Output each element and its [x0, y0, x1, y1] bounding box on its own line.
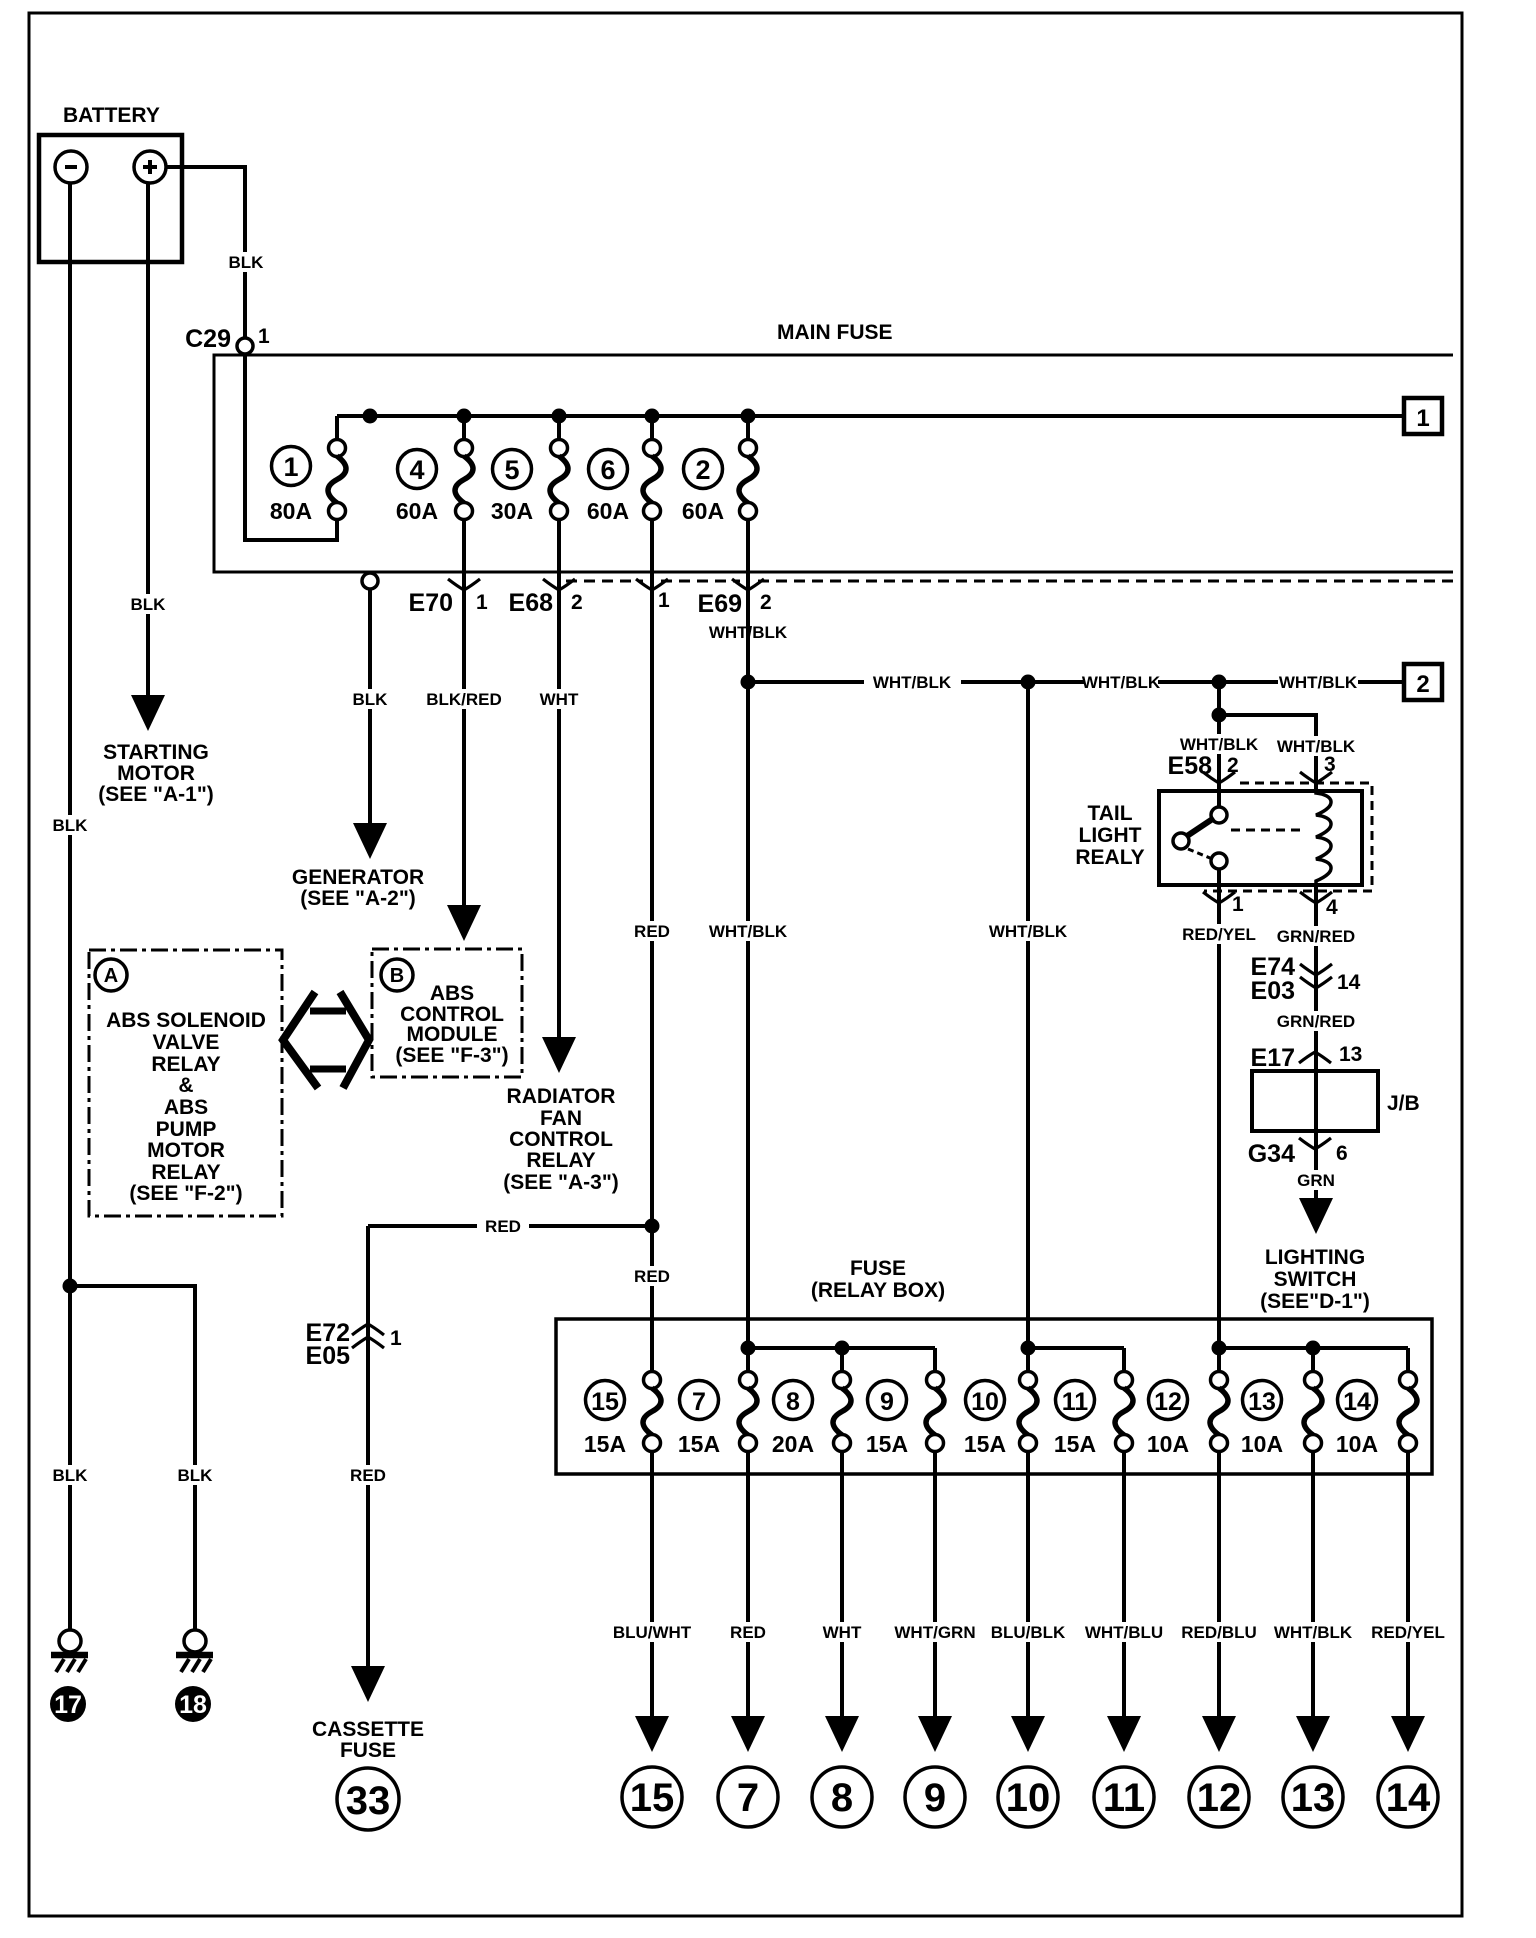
svg-text:MOTOR: MOTOR: [117, 762, 195, 785]
relay switch blade: [1187, 818, 1214, 836]
svg-text:ABS: ABS: [430, 982, 474, 1005]
fuse 13 10A: [1243, 1381, 1282, 1420]
svg-text:10: 10: [971, 1388, 999, 1416]
svg-text:15A: 15A: [678, 1431, 720, 1457]
svg-text:14: 14: [1343, 1388, 1371, 1416]
wire: [840, 1348, 844, 1372]
svg-text:2: 2: [695, 455, 710, 485]
svg-text:WHT/BLK: WHT/BLK: [989, 922, 1068, 941]
fuse 7 15A: [680, 1381, 719, 1420]
node bus-fuse4: [457, 409, 472, 424]
fuse 11 15A: [1056, 1381, 1095, 1420]
node relay coil branch: [1212, 708, 1227, 723]
svg-text:STARTING: STARTING: [103, 741, 209, 764]
svg-text:(SEE "F-2"): (SEE "F-2"): [129, 1182, 242, 1205]
svg-text:1: 1: [390, 1327, 402, 1350]
arrow to generator: [353, 823, 387, 859]
circuit 15 circle: [622, 1767, 682, 1827]
svg-text:60A: 60A: [682, 498, 724, 524]
connector pin 1: [1203, 892, 1235, 903]
svg-text:3: 3: [1324, 753, 1336, 776]
junction block J/B: [1252, 1071, 1378, 1131]
node bus-fuse6: [645, 409, 660, 424]
ground 17 number: [50, 1686, 86, 1722]
svg-text:ABS: ABS: [164, 1096, 208, 1119]
svg-text:15A: 15A: [1054, 1431, 1096, 1457]
node bus-fuse7: [741, 1341, 756, 1356]
connector pin 1 (fuse 6): [636, 579, 668, 590]
svg-text:(SEE "F-3"): (SEE "F-3"): [395, 1044, 508, 1067]
svg-text:15: 15: [591, 1388, 619, 1416]
svg-text:REALY: REALY: [1075, 846, 1144, 869]
relay coil: [1316, 791, 1331, 885]
node bus-fuse2: [741, 409, 756, 424]
svg-text:4: 4: [409, 455, 424, 485]
label BLK (ground 18 wire): [175, 1465, 215, 1485]
svg-text:LIGHTING: LIGHTING: [1265, 1246, 1365, 1269]
fuse box bus C (feeds fuses 12,13,14): [1219, 1346, 1408, 1350]
svg-text:TAIL: TAIL: [1087, 802, 1132, 825]
svg-text:13: 13: [1248, 1388, 1276, 1416]
battery negative terminal: [55, 151, 87, 183]
svg-text:80A: 80A: [270, 498, 312, 524]
svg-text:33: 33: [346, 1779, 391, 1823]
label GRN/RED: [1276, 1011, 1356, 1031]
wire fuse 12 output (RED/BLU): [1217, 1452, 1221, 1716]
svg-text:9: 9: [924, 1776, 946, 1820]
circuit 10 circle: [998, 1767, 1058, 1827]
node to tail light relay: [1212, 675, 1227, 690]
svg-text:(SEE"D-1"): (SEE"D-1"): [1260, 1290, 1370, 1313]
circuit 11 circle: [1094, 1767, 1154, 1827]
svg-text:2: 2: [1227, 754, 1239, 777]
wire generator feed: [368, 589, 372, 823]
wire fuse 13 output (WHT/BLK): [1311, 1452, 1315, 1716]
fuse 14 10A: [1338, 1381, 1377, 1420]
label RED (cassette wire): [346, 1465, 390, 1485]
svg-text:1: 1: [658, 589, 670, 612]
fuse 15 15A: [586, 1381, 625, 1420]
relay switch contacts: [1211, 807, 1227, 823]
off-page connector box 1: [1404, 398, 1442, 434]
node bus-fuse8: [835, 1341, 850, 1356]
svg-text:1: 1: [258, 325, 270, 348]
svg-text:10A: 10A: [1147, 1431, 1189, 1457]
relay mechanical link (dashed): [1231, 829, 1300, 832]
svg-text:E03: E03: [1251, 977, 1295, 1005]
fuse 12 10A: [1149, 1381, 1188, 1420]
label WHT/BLK (pin3): [1277, 736, 1355, 756]
wire battery negative to ground 17: [68, 183, 72, 1630]
wire: [557, 416, 561, 440]
bidirectional arrow between A and B: [283, 992, 369, 1088]
svg-text:GRN: GRN: [1297, 1171, 1335, 1190]
node bus-generator: [363, 409, 378, 424]
fuse 10 15A: [966, 1381, 1005, 1420]
label GRN: [1294, 1170, 1338, 1190]
fuse/relay box outline: [556, 1319, 1432, 1474]
svg-text:WHT/BLK: WHT/BLK: [1274, 1623, 1353, 1642]
node to fuse 10 wire: [1021, 675, 1036, 690]
node bus-fuse12: [1212, 1341, 1227, 1356]
wire: [1122, 1348, 1126, 1372]
svg-text:(SEE "A-3"): (SEE "A-3"): [503, 1171, 619, 1194]
battery B1: [39, 135, 182, 262]
svg-text:2: 2: [760, 591, 772, 614]
wire fuse6 (RED) down to fuse 15: [650, 519, 654, 1372]
svg-text:15A: 15A: [964, 1431, 1006, 1457]
arrow to ABS control module: [447, 905, 481, 941]
svg-text:CASSETTE: CASSETTE: [312, 1718, 424, 1741]
svg-text:13: 13: [1291, 1776, 1336, 1820]
svg-text:B: B: [390, 965, 404, 987]
wire fuse5 to radiator fan control relay: [557, 519, 561, 1037]
svg-text:SWITCH: SWITCH: [1274, 1268, 1357, 1291]
fuse 9 15A: [868, 1381, 907, 1420]
svg-text:60A: 60A: [587, 498, 629, 524]
circuit 8 circle: [812, 1767, 872, 1827]
tail light relay box E58: [1159, 791, 1362, 885]
svg-text:FUSE: FUSE: [850, 1257, 906, 1280]
svg-text:14: 14: [1386, 1776, 1431, 1820]
svg-text:17: 17: [54, 1691, 82, 1719]
wire battery positive to C29: [166, 167, 245, 354]
ground symbol 17: [51, 1630, 88, 1672]
main fuse bus wire: [337, 414, 1404, 418]
node bus-fuse13: [1306, 1341, 1321, 1356]
svg-text:60A: 60A: [396, 498, 438, 524]
connector dashed line under main fuse box: [566, 580, 643, 583]
wire: [1406, 1348, 1410, 1372]
svg-text:RELAY: RELAY: [151, 1161, 220, 1184]
svg-text:(RELAY BOX): (RELAY BOX): [811, 1279, 945, 1302]
svg-text:RED: RED: [634, 1267, 670, 1286]
ABS control module box B: [372, 949, 522, 1077]
svg-text:5: 5: [504, 455, 519, 485]
svg-text:RED: RED: [730, 1623, 766, 1642]
wire fuse2 (WHT/BLK) down to fuse 7: [746, 519, 750, 1372]
wire fuse4 to ABS control module: [462, 519, 466, 905]
svg-text:E17: E17: [1251, 1044, 1295, 1072]
svg-text:BLK: BLK: [229, 253, 265, 272]
svg-text:15A: 15A: [866, 1431, 908, 1457]
svg-text:RELAY: RELAY: [526, 1149, 595, 1172]
fuse box bus B (feeds fuses 10,11): [1028, 1346, 1124, 1350]
svg-text:11: 11: [1103, 1776, 1145, 1820]
fuse 5 30A: [493, 450, 532, 489]
label WHT/BLK (fuse7 wire): [709, 921, 787, 941]
svg-text:C29: C29: [185, 325, 231, 353]
svg-text:J/B: J/B: [1387, 1092, 1420, 1115]
svg-text:8: 8: [831, 1776, 853, 1820]
arrow to radiator fan control relay: [542, 1037, 576, 1073]
svg-text:BLK: BLK: [53, 816, 89, 835]
svg-text:&: &: [178, 1074, 193, 1097]
circuit 7 circle: [718, 1767, 778, 1827]
node RED branch: [645, 1219, 660, 1234]
svg-text:1: 1: [1416, 405, 1429, 432]
svg-text:LIGHT: LIGHT: [1079, 824, 1142, 847]
wire fuse 14 output (RED/YEL): [1406, 1452, 1410, 1716]
wire: [335, 416, 339, 440]
svg-text:(SEE "A-1"): (SEE "A-1"): [98, 783, 214, 806]
svg-text:ABS SOLENOID: ABS SOLENOID: [106, 1009, 266, 1032]
svg-text:2: 2: [571, 591, 583, 614]
arrow to starting motor: [131, 695, 165, 731]
svg-text:12: 12: [1197, 1776, 1242, 1820]
fuse 2 60A: [684, 450, 723, 489]
wire: [933, 1348, 937, 1372]
cassette fuse circle 33: [337, 1768, 399, 1830]
svg-text:BLU/BLK: BLU/BLK: [991, 1623, 1066, 1642]
svg-text:WHT/BLK: WHT/BLK: [1279, 673, 1358, 692]
fuse box bus A (feeds fuses 7,8,9): [748, 1346, 935, 1350]
ground 18 number: [175, 1686, 211, 1722]
circuit 14 circle: [1378, 1767, 1438, 1827]
wire relay pin 1 (RED/YEL) down to fuse 12: [1217, 869, 1221, 1372]
wire down to relay pin 2: [1217, 682, 1221, 807]
svg-text:RED: RED: [634, 922, 670, 941]
svg-text:6: 6: [600, 455, 615, 485]
svg-text:GRN/RED: GRN/RED: [1277, 1012, 1355, 1031]
label GRN/RED: [1276, 926, 1356, 946]
wire fuse 10 output (BLU/BLK): [1026, 1452, 1030, 1716]
svg-text:BATTERY: BATTERY: [63, 104, 160, 127]
svg-text:PUMP: PUMP: [156, 1118, 217, 1141]
label WHT: [536, 689, 582, 709]
svg-text:WHT/GRN: WHT/GRN: [894, 1623, 975, 1642]
svg-text:MODULE: MODULE: [407, 1023, 498, 1046]
ground symbol 18: [176, 1630, 213, 1672]
node ground branch: [63, 1279, 78, 1294]
svg-text:G34: G34: [1248, 1140, 1295, 1168]
svg-text:E70: E70: [409, 589, 453, 617]
label BLK (battery negative wire): [50, 815, 90, 835]
arrow to cassette fuse: [351, 1666, 385, 1702]
node WHT/BLK branch: [741, 675, 756, 690]
svg-text:7: 7: [737, 1776, 759, 1820]
RED branch wire to cassette fuse column: [368, 1224, 477, 1228]
fuse 8 20A: [774, 1381, 813, 1420]
connector pin 4: [1314, 885, 1318, 1198]
svg-text:15: 15: [630, 1776, 675, 1820]
svg-text:2: 2: [1416, 671, 1429, 698]
tail light relay dashed outline: [1204, 783, 1372, 891]
svg-text:A: A: [104, 965, 118, 987]
wire battery positive down to starting motor: [146, 183, 150, 695]
svg-text:RED: RED: [350, 1466, 386, 1485]
label WHT/BLK (pin2): [1179, 734, 1259, 754]
label WHT/BLK (E69 output): [709, 622, 787, 642]
svg-text:9: 9: [880, 1388, 894, 1416]
svg-text:GRN/RED: GRN/RED: [1277, 927, 1355, 946]
wire C29 to fuse 1: [245, 354, 337, 540]
wire: [746, 416, 750, 440]
wire down to cassette fuse: [366, 1226, 370, 1666]
svg-text:BLK: BLK: [53, 1466, 89, 1485]
wire WHT/BLK down to fuse 10: [1026, 682, 1030, 1372]
battery positive terminal: [134, 151, 166, 183]
svg-text:VALVE: VALVE: [153, 1031, 220, 1054]
svg-text:BLK: BLK: [353, 690, 389, 709]
connector E58 pin 3: [1300, 772, 1332, 783]
svg-text:BLK: BLK: [178, 1466, 214, 1485]
wire branch to relay pin 3: [1219, 715, 1316, 791]
WHT/BLK horizontal wire: [748, 680, 864, 684]
label RED: [630, 921, 674, 941]
wire fuse 11 output (WHT/BLU): [1122, 1452, 1126, 1716]
svg-text:E05: E05: [306, 1342, 351, 1370]
label BLK (positive feed): [226, 252, 266, 272]
svg-text:CONTROL: CONTROL: [509, 1128, 613, 1151]
svg-text:(SEE "A-2"): (SEE "A-2"): [300, 887, 416, 910]
svg-text:4: 4: [1326, 896, 1338, 919]
svg-text:6: 6: [1336, 1142, 1348, 1165]
main fuse box outline: [214, 355, 1453, 572]
svg-text:8: 8: [786, 1388, 800, 1416]
node bus-fuse10: [1021, 1341, 1036, 1356]
svg-text:WHT/BLK: WHT/BLK: [873, 673, 952, 692]
svg-text:1: 1: [476, 591, 488, 614]
svg-text:13: 13: [1339, 1043, 1362, 1066]
svg-text:FUSE: FUSE: [340, 1739, 396, 1762]
fuse 6 60A: [589, 450, 628, 489]
svg-text:RED/YEL: RED/YEL: [1182, 925, 1256, 944]
wire fuse 15 output (BLU/WHT): [650, 1452, 654, 1716]
svg-text:30A: 30A: [491, 498, 533, 524]
off-page connector box 2: [1404, 664, 1442, 700]
wire to ground 18: [70, 1286, 195, 1630]
circuit 9 circle: [905, 1767, 965, 1827]
wire fuse 8 output (WHT): [840, 1452, 844, 1716]
svg-text:FAN: FAN: [540, 1107, 582, 1130]
label BLK/RED: [424, 689, 504, 709]
svg-text:MOTOR: MOTOR: [147, 1139, 225, 1162]
svg-text:11: 11: [1062, 1388, 1089, 1416]
svg-text:E69: E69: [698, 590, 742, 618]
arrow to lighting switch: [1299, 1198, 1333, 1234]
svg-text:MAIN FUSE: MAIN FUSE: [777, 321, 893, 344]
svg-text:15A: 15A: [584, 1431, 626, 1457]
label WHT/BLK (fuse10 wire): [989, 921, 1067, 941]
label BLK (starting motor wire): [128, 594, 168, 614]
svg-text:BLK: BLK: [131, 595, 167, 614]
svg-text:14: 14: [1337, 971, 1361, 994]
svg-text:RADIATOR: RADIATOR: [507, 1085, 616, 1108]
svg-text:RED: RED: [485, 1217, 521, 1236]
svg-text:RED/BLU: RED/BLU: [1181, 1623, 1257, 1642]
wire: [650, 416, 654, 440]
svg-text:12: 12: [1154, 1388, 1182, 1416]
node bus-fuse5: [552, 409, 567, 424]
fuse 1 80A: [272, 447, 311, 486]
svg-text:RED/YEL: RED/YEL: [1371, 1623, 1445, 1642]
svg-text:WHT: WHT: [823, 1623, 862, 1642]
svg-text:E68: E68: [509, 589, 554, 617]
svg-text:18: 18: [179, 1691, 207, 1719]
wire: [1311, 1348, 1315, 1372]
svg-text:1: 1: [283, 452, 298, 482]
svg-text:RELAY: RELAY: [151, 1053, 220, 1076]
label RED (lower): [630, 1266, 674, 1286]
svg-text:WHT: WHT: [540, 690, 579, 709]
circuit 13 circle: [1283, 1767, 1343, 1827]
wire fuse 9 output (WHT/GRN): [933, 1452, 937, 1716]
svg-text:10A: 10A: [1336, 1431, 1378, 1457]
label BLK (generator wire): [350, 689, 390, 709]
circuit 12 circle: [1189, 1767, 1249, 1827]
svg-text:BLU/WHT: BLU/WHT: [613, 1623, 692, 1642]
svg-text:GENERATOR: GENERATOR: [292, 866, 424, 889]
svg-text:WHT/BLK: WHT/BLK: [1082, 673, 1161, 692]
label RED/YEL: [1180, 924, 1258, 944]
connector pin (open circle) generator wire: [362, 573, 378, 589]
svg-text:10: 10: [1006, 1776, 1051, 1820]
wire: [462, 416, 466, 440]
svg-text:BLK/RED: BLK/RED: [426, 690, 502, 709]
ABS solenoid valve relay box A: [89, 950, 282, 1216]
svg-text:7: 7: [692, 1388, 706, 1416]
wire fuse 7 output (RED): [746, 1452, 750, 1716]
fuse 4 60A: [398, 450, 437, 489]
label BLK (ground 17 wire): [50, 1465, 90, 1485]
svg-text:WHT/BLU: WHT/BLU: [1085, 1623, 1163, 1642]
svg-text:10A: 10A: [1241, 1431, 1283, 1457]
svg-text:20A: 20A: [772, 1431, 814, 1457]
svg-text:WHT/BLK: WHT/BLK: [1277, 737, 1356, 756]
svg-text:1: 1: [1232, 893, 1244, 916]
svg-text:WHT/BLK: WHT/BLK: [709, 922, 788, 941]
